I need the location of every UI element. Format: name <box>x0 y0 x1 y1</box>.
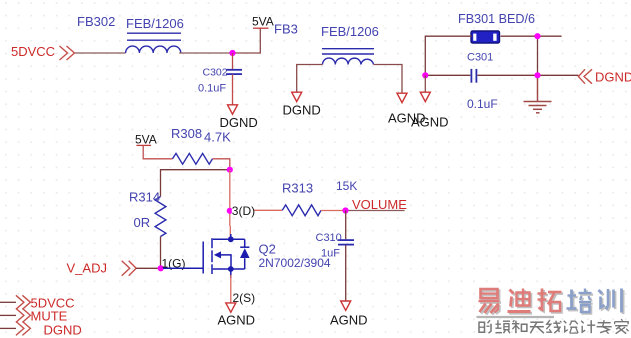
svg-text:4.7K: 4.7K <box>204 130 231 145</box>
svg-text:FEB/1206: FEB/1206 <box>126 16 184 31</box>
svg-text:AGND: AGND <box>411 115 449 130</box>
wire AGND stub (left rail) <box>424 75 426 92</box>
watermark logo text <box>480 290 623 315</box>
port MUTE <box>0 314 16 316</box>
junction node VOLUME <box>342 207 348 213</box>
wire R313 to VOLUME <box>321 210 346 212</box>
svg-text:Q2: Q2 <box>259 242 276 257</box>
watermark underline <box>477 316 555 318</box>
svg-text:R308: R308 <box>171 126 202 141</box>
ferrite bead FB302 <box>126 33 181 53</box>
svg-text:FB301 BED/6: FB301 BED/6 <box>458 12 535 26</box>
port 5DVCC (top-left) <box>60 46 75 60</box>
svg-text:R314: R314 <box>129 190 160 205</box>
svg-text:AGND: AGND <box>218 313 256 328</box>
svg-text:0.1uF: 0.1uF <box>467 97 498 111</box>
ground AGND (FB301 left rail) <box>420 92 430 101</box>
wire node up to 5VA <box>233 28 261 53</box>
svg-text:V_ADJ: V_ADJ <box>67 261 107 276</box>
wire 3(D) to R313 <box>230 209 282 211</box>
svg-text:C302: C302 <box>203 67 228 79</box>
svg-text:2N7002/3904: 2N7002/3904 <box>259 256 331 270</box>
port V_ADJ <box>122 261 137 276</box>
wire node to R314 <box>161 170 230 197</box>
wire rail node to 3(D) <box>229 170 231 226</box>
wire left leg to DGND <box>297 65 323 93</box>
ground DGND (under C302) <box>228 105 238 114</box>
pin label 3(D) <box>232 204 255 218</box>
wire 5DVCC to FB302 <box>75 52 126 54</box>
wire V_ADJ to 1(G) <box>136 267 161 269</box>
svg-text:C301: C301 <box>467 52 493 64</box>
svg-text:MUTE: MUTE <box>31 309 68 324</box>
wire top rail FB301 <box>425 36 471 75</box>
svg-text:DGND: DGND <box>220 115 258 130</box>
svg-text:5VA: 5VA <box>252 15 274 29</box>
ground AGND (C310) <box>341 301 351 310</box>
junction node 3(D) <box>227 208 233 214</box>
svg-text:0R: 0R <box>134 215 151 230</box>
ground AGND (source) <box>226 303 236 312</box>
port 5DVCC (bottom-left) <box>0 301 16 303</box>
svg-text:DGND: DGND <box>44 323 82 338</box>
capacitor C310 <box>345 211 347 240</box>
svg-text:0.1uF: 0.1uF <box>198 83 226 95</box>
earth ground (right rail) <box>524 78 552 113</box>
wire FB302 to node <box>179 52 232 54</box>
junction node 5VA <box>229 50 235 56</box>
capacitor C302 <box>232 53 234 69</box>
svg-text:R313: R313 <box>282 181 313 196</box>
wire C301 to DGND port <box>478 74 579 76</box>
svg-text:5VA: 5VA <box>135 133 157 147</box>
ground AGND (right leg) <box>397 93 407 102</box>
wire 5VA to R308 <box>143 146 172 159</box>
port DGND (right) <box>578 69 592 83</box>
svg-text:VOLUME: VOLUME <box>352 197 407 212</box>
wire 2(S) to AGND <box>230 275 232 303</box>
wire R314 to 1(G) <box>160 237 162 269</box>
junction node (C301 right) <box>534 72 540 78</box>
svg-text:3(D): 3(D) <box>232 204 255 218</box>
port DGND (bottom-left) <box>0 327 16 329</box>
svg-text:FB3: FB3 <box>274 22 298 37</box>
resistor R313 <box>282 205 321 216</box>
resistor R308 <box>173 153 213 164</box>
junction node (FB301 right) <box>534 33 540 39</box>
svg-text:C310: C310 <box>316 232 342 244</box>
svg-text:DGND: DGND <box>283 103 321 118</box>
ground DGND (left leg) <box>292 92 302 101</box>
ferrite bead FB3 (second FEB/1206) <box>322 49 374 65</box>
svg-text:DGND: DGND <box>595 70 631 85</box>
wire C310 to AGND <box>345 245 347 300</box>
junction node 1(G) <box>158 265 164 271</box>
capacitor C301 <box>425 74 470 76</box>
svg-text:AGND: AGND <box>330 313 368 328</box>
net label 5VA <box>253 27 269 29</box>
svg-text:5DVCC: 5DVCC <box>11 44 55 59</box>
wire C302 to DGND <box>232 74 234 104</box>
wire right rail down <box>537 36 539 75</box>
wire R308 to node <box>213 159 230 170</box>
junction node (C301 left) <box>422 72 428 78</box>
net VOLUME wire <box>346 210 405 212</box>
watermark slogan <box>479 319 629 334</box>
resistor R314 <box>155 197 166 237</box>
svg-text:15K: 15K <box>336 179 357 193</box>
svg-text:FB302: FB302 <box>77 14 115 29</box>
transistor Q2 (N-MOSFET with body diode) <box>163 234 249 278</box>
wire right leg to AGND <box>374 65 402 94</box>
svg-text:FEB/1206: FEB/1206 <box>321 24 379 39</box>
junction node (R308/R314) <box>227 167 233 173</box>
